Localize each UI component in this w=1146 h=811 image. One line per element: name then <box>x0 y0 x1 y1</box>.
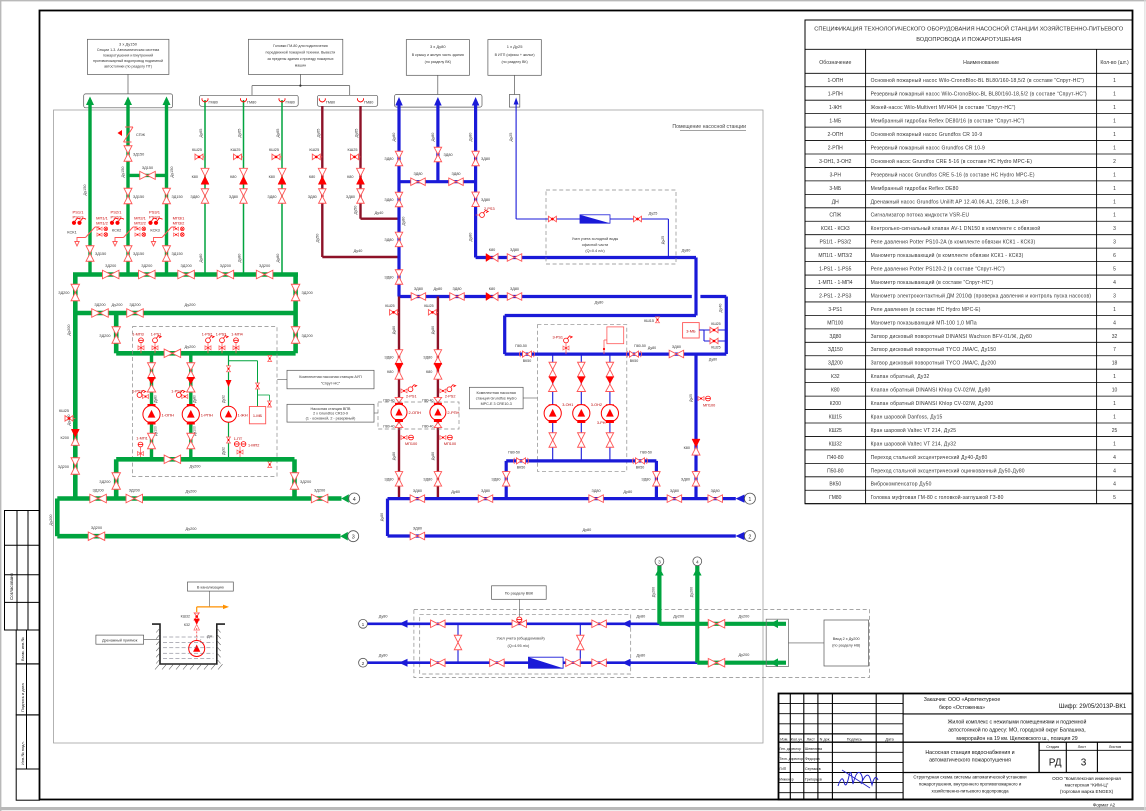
station label leader <box>523 397 537 399</box>
svg-text:МП3/2: МП3/2 <box>173 220 186 225</box>
leader roof supply <box>437 75 439 94</box>
table row К80 <box>805 395 1133 397</box>
filter office meter <box>580 215 610 223</box>
svg-text:Сертаков: Сертаков <box>805 767 821 771</box>
check К32 drain <box>194 619 200 630</box>
valve КШ25 left main <box>66 417 75 419</box>
svg-text:Ду25: Ду25 <box>661 236 665 244</box>
svg-text:Кран шаровой Danfoss, Ду15: Кран шаровой Danfoss, Ду15 <box>871 413 943 420</box>
svg-text:Резервный пожарный насос Wilo-: Резервный пожарный насос Wilo-CronoBloc-… <box>871 91 1087 98</box>
pipe blue manifold drop left <box>386 499 389 536</box>
instrument 2-PS2 <box>440 389 446 393</box>
valve ЗД80 blue riser1 b <box>395 192 403 207</box>
svg-text:В канализацию: В канализацию <box>197 585 224 589</box>
svg-text:ГМ80: ГМ80 <box>286 101 295 105</box>
flange bottom 3-ОН2 <box>577 420 585 423</box>
svg-text:Техн. директор: Техн. директор <box>780 757 804 761</box>
title block signature columns <box>789 694 791 800</box>
arrow orange sewer <box>223 605 229 610</box>
connector circle 4 bottom <box>693 557 702 566</box>
svg-text:ЗД80: ЗД80 <box>829 334 841 340</box>
svg-text:Ду25: Ду25 <box>689 394 693 402</box>
callout box Ввод <box>824 620 869 666</box>
svg-text:Ду80: Ду80 <box>431 326 435 334</box>
svg-text:Ду80: Ду80 <box>379 653 388 657</box>
svg-text:Ду200: Ду200 <box>67 325 71 336</box>
pit water level dashes <box>163 636 214 638</box>
pump 3-ОН2 <box>573 405 590 422</box>
drain pit walls <box>152 624 225 664</box>
svg-text:противопожарный водопровод под: противопожарный водопровод подземной <box>93 59 163 63</box>
svg-text:3-РН: 3-РН <box>830 172 842 178</box>
pipe green inlet top <box>659 622 786 626</box>
valve ЗД80 drop left <box>502 472 510 487</box>
table row 3-ОН1, 3-ОН2 <box>805 166 1133 168</box>
svg-text:PS1/1 - PS3/2: PS1/1 - PS3/2 <box>819 240 851 246</box>
svg-text:КШ25: КШ25 <box>711 346 720 350</box>
pipe green left drop <box>73 275 78 316</box>
valve ЗД80 blue riser1 a <box>395 151 403 166</box>
KSK valve КСК2 body <box>119 227 138 238</box>
svg-text:1: 1 <box>1113 132 1116 138</box>
svg-text:Ду80: Ду80 <box>392 452 396 460</box>
arrow meter top left <box>399 620 408 628</box>
dashed box outer inlet unit <box>414 610 870 678</box>
svg-text:Ду80: Ду80 <box>392 326 396 334</box>
svg-text:В крышу и жилую часть здания: В крышу и жилую часть здания <box>412 53 464 57</box>
pipe green x116 lower segment <box>114 459 119 498</box>
svg-text:К80: К80 <box>230 175 236 179</box>
svg-text:Лист: Лист <box>807 738 816 742</box>
svg-text:1 х Ду25: 1 х Ду25 <box>507 44 523 49</box>
valve ЗД200 right drop lower <box>291 327 300 344</box>
svg-text:Переход стальной эксцентрическ: Переход стальной эксцентрический оцинков… <box>871 467 1025 474</box>
svg-text:1: 1 <box>1113 414 1116 420</box>
KSK cluster 1 trim rows <box>97 227 102 230</box>
svg-text:хозяйственно-питьевого водопро: хозяйственно-питьевого водопровода <box>931 789 1009 794</box>
table row 1-РПН <box>805 99 1133 101</box>
svg-text:(по разделу НВ): (по разделу НВ) <box>832 644 861 648</box>
svg-text:КШ25: КШ25 <box>829 428 842 434</box>
svg-text:ЗД80: ЗД80 <box>481 157 490 161</box>
svg-text:1: 1 <box>1113 186 1116 192</box>
table row МП1/1 - МП3/2 <box>805 261 1133 263</box>
pump 2-ОПН <box>391 404 407 420</box>
pipe meter bypass right <box>579 624 581 663</box>
check valve К80 thin riser 3 <box>278 168 286 184</box>
valve top leg 3-ОН1 <box>549 362 557 377</box>
svg-text:1-ОПН: 1-ОПН <box>162 413 175 418</box>
svg-text:1-РПН: 1-РПН <box>201 413 213 418</box>
margin box Подпись и дата <box>16 664 39 715</box>
pipe blue link risers <box>399 180 476 183</box>
svg-text:3-ОН1, 3-ОН2: 3-ОН1, 3-ОН2 <box>819 159 851 165</box>
svg-text:ЗД80: ЗД80 <box>229 195 238 199</box>
svg-text:Ду80: Ду80 <box>469 133 473 142</box>
svg-text:Подпись: Подпись <box>847 738 862 742</box>
svg-text:Инв.№ подл.: Инв.№ подл. <box>20 741 25 765</box>
pipe maroon leg 2-ОПН <box>398 297 400 499</box>
leader to fire collector <box>127 74 129 94</box>
valve top line a <box>431 620 446 628</box>
tank 1-МБ <box>249 407 265 424</box>
tank 3-МБ box <box>683 323 700 338</box>
pipe pump leg 3-ОН2 <box>580 354 582 461</box>
svg-text:Ду80: Ду80 <box>431 452 435 460</box>
valve ЗД80 link b <box>449 178 464 186</box>
svg-text:КСК2: КСК2 <box>112 228 121 233</box>
valve ЗД200 left main <box>71 458 80 475</box>
pipe 1-МБ link <box>229 360 258 362</box>
valve inlet top <box>708 620 725 629</box>
svg-text:СПЕЦИФИКАЦИЯ ТЕХНОЛОГИЧЕСКОГО: СПЕЦИФИКАЦИЯ ТЕХНОЛОГИЧЕСКОГО ОБОРУДОВАН… <box>814 25 1123 33</box>
callout box GM-80 heads <box>248 39 342 74</box>
svg-text:1-PS4: 1-PS4 <box>171 390 182 394</box>
valve ЗД150 riser 2 lower <box>124 246 132 262</box>
svg-text:3-МБ: 3-МБ <box>686 329 696 334</box>
KSK valve КСК1 body <box>81 227 100 238</box>
svg-text:П80-50: П80-50 <box>508 451 520 455</box>
svg-text:ВК50: ВК50 <box>523 359 532 363</box>
valve КШ25 leg 2-РПН <box>429 311 438 313</box>
svg-text:КШ25: КШ25 <box>231 148 241 152</box>
svg-text:1-МБ: 1-МБ <box>253 413 263 418</box>
svg-text:ЗД80: ЗД80 <box>308 195 317 199</box>
KSK cluster 2 trim rows <box>135 227 140 230</box>
valve on leg 1-ОПН bottom <box>148 433 156 449</box>
valve ЗД80 manifold1 a <box>410 495 425 503</box>
reducer П80-40 lower 2-РПН <box>434 422 442 427</box>
pipe meter bypass left <box>457 624 459 663</box>
control box 3x station <box>607 327 624 344</box>
svg-text:Ду80: Ду80 <box>193 395 197 403</box>
pipe maroon riser1 elbow to blue <box>322 256 399 258</box>
svg-text:Ду200: Ду200 <box>49 515 53 526</box>
flange top 3-ОН2 <box>577 404 585 407</box>
svg-text:П80-40: П80-40 <box>422 425 433 429</box>
valve bottom leg 3-ОН1 <box>549 433 557 448</box>
table row ЗД200 <box>805 368 1133 370</box>
svg-text:Узел учета холодной воды: Узел учета холодной воды <box>572 237 619 241</box>
pump 2-РПН <box>430 404 446 420</box>
svg-text:3: 3 <box>1113 226 1116 232</box>
svg-text:ЗД200: ЗД200 <box>99 480 110 484</box>
svg-text:4: 4 <box>1113 320 1116 326</box>
valve КШ25 meter outlet <box>634 216 642 222</box>
pipe green suction header <box>116 351 295 356</box>
svg-text:Ду80: Ду80 <box>402 217 406 226</box>
svg-text:Помещение насосной станции: Помещение насосной станции <box>672 123 746 130</box>
flange bottom 1-ОПН <box>148 422 156 425</box>
svg-text:1: 1 <box>1113 441 1116 447</box>
svg-text:1: 1 <box>362 622 365 628</box>
pipe pump leg 3-РН <box>609 354 611 461</box>
svg-text:(Q=0.4 л/с): (Q=0.4 л/с) <box>585 249 605 253</box>
svg-text:MPC-E 3 CRE10-3: MPC-E 3 CRE10-3 <box>481 402 512 406</box>
flange bottom 2-ОПН <box>395 419 403 422</box>
connector circle 1 <box>744 493 755 504</box>
svg-text:К80: К80 <box>269 175 275 179</box>
svg-text:Листов: Листов <box>1109 745 1121 749</box>
svg-text:(по разделу ВК): (по разделу ВК) <box>425 60 451 64</box>
svg-text:КШ15: КШ15 <box>829 414 842 420</box>
svg-text:К200: К200 <box>60 436 69 440</box>
svg-text:Заказчик: ООО «Архитектурное: Заказчик: ООО «Архитектурное <box>924 697 1001 703</box>
pipe green riser 3 Ду150 <box>165 100 168 275</box>
arrow riser 2 <box>124 97 132 106</box>
svg-text:Реле давления (в составе НС Hy: Реле давления (в составе НС Hydro MPC-E) <box>871 307 981 313</box>
svg-text:Узел учета (общедомовой): Узел учета (общедомовой) <box>496 636 545 641</box>
svg-text:Жокей-насос Wilo-Multivert MVI: Жокей-насос Wilo-Multivert MVI404 (в сос… <box>871 104 1016 111</box>
svg-text:Ду65: Ду65 <box>276 129 280 138</box>
svg-text:2: 2 <box>748 534 751 540</box>
pump 1-РПН <box>182 406 199 423</box>
svg-text:Манометр показывающий (в соста: Манометр показывающий (в составе “Спрут-… <box>871 279 994 286</box>
valve ЗД200 suction header <box>164 349 181 358</box>
instrument 2-PS3 <box>480 210 489 217</box>
svg-text:N док.: N док. <box>820 738 831 742</box>
pipe green riser 1 Ду150 <box>88 100 91 275</box>
svg-text:ЗД150: ЗД150 <box>142 166 153 170</box>
table row 1-PS1 - 1-PS5 <box>805 274 1133 276</box>
svg-text:2-РПН: 2-РПН <box>447 410 459 415</box>
arrow meter bottom right <box>622 659 631 667</box>
svg-text:ЗД80: ЗД80 <box>452 287 461 291</box>
svg-text:К200: К200 <box>830 401 841 407</box>
svg-text:Головка муфтовая ГМ-80 с голов: Головка муфтовая ГМ-80 с головкой-заглуш… <box>871 494 1004 501</box>
svg-text:5: 5 <box>1113 495 1116 501</box>
svg-text:ЗД200: ЗД200 <box>92 489 103 493</box>
compensator ВК50 discharge left <box>514 458 529 464</box>
svg-text:П40-80: П40-80 <box>827 455 844 461</box>
svg-text:РД: РД <box>1049 758 1062 769</box>
svg-text:1-PS1 - 1-PS5: 1-PS1 - 1-PS5 <box>819 267 851 273</box>
valve bottom leg 3-РН <box>606 433 614 448</box>
arrow to connector 2 <box>736 532 745 540</box>
valve ЗД150 riser3 mid <box>163 188 171 204</box>
svg-text:Мембранный гидробак Reflex DE8: Мембранный гидробак Reflex DE80 <box>871 185 959 192</box>
pipe blue meter top line <box>368 622 660 625</box>
pipe blue thin riser Ду25 <box>515 101 517 219</box>
svg-text:По разделу ВВК: По разделу ВВК <box>505 592 534 596</box>
drain pit hatching <box>159 663 161 665</box>
svg-text:1-МП1 - 1-МП4: 1-МП1 - 1-МП4 <box>818 280 853 286</box>
flange top 2-РПН <box>434 403 442 406</box>
valve КШ32 drain <box>194 613 199 620</box>
pipe green discharge header <box>116 457 294 462</box>
pipe blue drop x504 <box>503 316 506 355</box>
svg-text:Ду80: Ду80 <box>276 254 280 263</box>
svg-text:1: 1 <box>1113 145 1116 151</box>
svg-text:автоматического пожаротушения: автоматического пожаротушения <box>929 758 1011 764</box>
valve on leg 1-РПН top <box>187 363 195 379</box>
dashed box Sprut-NS station <box>133 327 278 477</box>
svg-text:автостоянкой по адресу: МО, го: автостоянкой по адресу: МО, городской ок… <box>948 727 1085 734</box>
arrow blue riser1 <box>395 97 403 106</box>
svg-text:ООО “Комплексная инженерная: ООО “Комплексная инженерная <box>1052 776 1121 781</box>
svg-text:Инженер: Инженер <box>780 777 794 781</box>
dashed box Hydro MPC station <box>537 325 626 472</box>
svg-text:ЗД200: ЗД200 <box>91 526 102 530</box>
pipe blue riser 3 <box>474 101 477 258</box>
svg-text:ЗД200: ЗД200 <box>129 303 140 307</box>
valve ЗД200 x116 lower <box>112 473 121 490</box>
svg-text:Основной пожарный насос Wilo-C: Основной пожарный насос Wilo-CronoBloc-B… <box>871 77 1085 84</box>
valve ЗД200 mid horizontal 1 <box>92 309 109 318</box>
svg-text:ЗД200: ЗД200 <box>180 264 191 268</box>
arrow riser 3 <box>163 97 171 106</box>
pipe blue meter bottom line <box>368 661 698 664</box>
svg-text:ЗД80: ЗД80 <box>413 527 422 531</box>
svg-text:(по разделу ВК): (по разделу ВК) <box>501 60 527 64</box>
dashed box office water meter <box>546 190 676 264</box>
svg-text:ЗД80: ЗД80 <box>190 195 199 199</box>
valve ЗД80 blue riser1 c <box>395 232 403 247</box>
table row PS1/1 - PS3/2 <box>805 247 1133 249</box>
svg-text:ЗД80: ЗД80 <box>413 489 422 493</box>
valve bottom line c <box>566 659 581 667</box>
svg-text:Ду80: Ду80 <box>199 254 203 263</box>
svg-text:3-ОН1: 3-ОН1 <box>562 403 573 407</box>
svg-text:К80: К80 <box>684 446 690 450</box>
valve ЗД80 blue riser3 a <box>472 151 480 166</box>
valve КШ25 leg 2-ОПН <box>390 311 399 313</box>
table row К200 <box>805 409 1133 411</box>
svg-text:Ду80: Ду80 <box>469 233 473 242</box>
svg-text:МП100: МП100 <box>405 442 417 446</box>
margin box Взам. инв. № <box>16 630 39 664</box>
svg-text:ЗД80: ЗД80 <box>510 248 519 252</box>
svg-text:Ду32: Ду32 <box>222 395 226 403</box>
valve bottom line d <box>592 659 607 667</box>
svg-text:Ду80: Ду80 <box>392 133 396 142</box>
svg-text:Ду200: Ду200 <box>673 614 684 618</box>
svg-text:ЗД80: ЗД80 <box>423 478 432 482</box>
collector box domestic risers <box>395 95 483 108</box>
pipe blue y315 horizontal <box>505 314 696 317</box>
pipe green thin riser 1 Ду65 <box>204 100 206 275</box>
flange bottom 3-РН <box>606 420 614 423</box>
pipe green riser to 4 <box>695 566 699 663</box>
table row КСК1 - КСК3 <box>805 234 1133 236</box>
svg-text:Резервный насос Grundfos CRE 5: Резервный насос Grundfos CRE 5-16 (в сос… <box>871 171 1035 178</box>
table row КШ15 <box>805 422 1133 424</box>
pipe blue thin office drop <box>667 219 669 258</box>
svg-text:1: 1 <box>1113 92 1116 98</box>
flange top 2-ОПН <box>395 403 403 406</box>
reducer-check combo on leg 1-ОПН <box>147 377 155 392</box>
leader inlet callout <box>788 642 824 644</box>
svg-text:ЗД150: ЗД150 <box>172 195 183 199</box>
pipe blue x696 upper <box>694 258 697 316</box>
GM80 head 2 <box>241 98 247 102</box>
svg-text:Ду32: Ду32 <box>222 447 226 455</box>
svg-text:К32: К32 <box>831 374 840 380</box>
svg-text:Шевелева: Шевелева <box>805 747 822 751</box>
svg-text:Переход стальной эксцентрическ: Переход стальной эксцентрический Ду40-Ду… <box>871 454 988 461</box>
valve ЗД200 manifold 3 <box>178 270 195 279</box>
collector box ITP riser <box>509 95 519 108</box>
KSK cluster 2 drain arrow <box>115 238 123 242</box>
reducer П80-40 lower 2-ОПН <box>395 422 403 427</box>
svg-text:1: 1 <box>1113 307 1116 313</box>
svg-text:ЗД200: ЗД200 <box>94 303 105 307</box>
svg-text:Ду80: Ду80 <box>153 395 157 403</box>
svg-text:2-PS1: 2-PS1 <box>406 394 417 398</box>
svg-text:ГМ80: ГМ80 <box>209 101 218 105</box>
KSK cluster 2 manometer pair <box>110 221 114 225</box>
svg-text:МП100: МП100 <box>827 320 843 326</box>
svg-text:Кран шаровой Valtec VT 214, Ду: Кран шаровой Valtec VT 214, Ду25 <box>871 427 957 434</box>
valve ЗД200 manifold 2 <box>139 270 156 279</box>
svg-text:Обозначение: Обозначение <box>819 60 851 66</box>
svg-text:3-PS1: 3-PS1 <box>828 307 842 313</box>
svg-text:Комплектная насосная: Комплектная насосная <box>477 391 516 395</box>
valve КШ25 meter inlet <box>548 216 556 222</box>
svg-text:К80: К80 <box>489 248 495 252</box>
svg-text:П80-50: П80-50 <box>640 451 652 455</box>
pipe green riser 2 Ду150 <box>126 100 129 275</box>
pipe green jog vertical <box>55 499 60 537</box>
svg-text:ЗД150: ЗД150 <box>828 347 843 353</box>
valve ЗД80 manifold1 b <box>478 495 493 503</box>
svg-text:КСК1: КСК1 <box>67 229 76 234</box>
svg-text:Основной пожарный насос Grundf: Основной пожарный насос Grundfos CR 10-9 <box>871 131 983 138</box>
drain tap on discharge header <box>268 462 272 468</box>
svg-text:ГМ80: ГМ80 <box>326 101 335 105</box>
svg-text:Ду40: Ду40 <box>375 211 384 215</box>
valve top line b <box>592 620 607 628</box>
table row К32 <box>805 382 1133 384</box>
svg-text:П80-50: П80-50 <box>634 344 646 348</box>
svg-text:ЗД80: ЗД80 <box>423 356 432 360</box>
svg-text:Ду80: Ду80 <box>648 346 656 350</box>
svg-text:КСК1 - КСК3: КСК1 - КСК3 <box>821 226 850 232</box>
svg-text:1: 1 <box>1113 119 1116 125</box>
valve bottom line b <box>490 659 505 667</box>
margin column block Согласовано <box>5 511 40 631</box>
GM80 head 1 <box>202 98 208 102</box>
valve ЗД80 manifold2 <box>410 532 425 540</box>
valve ЗД80 thin riser 1 <box>201 189 209 204</box>
svg-text:ЗД80: ЗД80 <box>384 356 393 360</box>
svg-text:пожаротушения и Внутренний: пожаротушения и Внутренний <box>103 54 153 58</box>
pump 3-РН <box>601 405 618 422</box>
label box Дренажный приямок <box>96 635 144 644</box>
arrow green riser 4 <box>693 568 702 576</box>
svg-text:Шифр: 29/05/2013Р-ВК1: Шифр: 29/05/2013Р-ВК1 <box>1059 704 1127 710</box>
flange bottom 1-РПН <box>187 422 195 425</box>
arrow meter top right <box>622 620 631 628</box>
svg-text:2-PS3: 2-PS3 <box>484 207 495 211</box>
svg-text:ЗД150: ЗД150 <box>133 252 144 256</box>
arrow riser 1 <box>86 97 94 106</box>
svg-text:ЗД200: ЗД200 <box>105 264 116 268</box>
svg-text:Ду25: Ду25 <box>509 133 513 142</box>
svg-text:мастерская “КИМ-Ц”: мастерская “КИМ-Ц” <box>1065 783 1109 788</box>
title block stage columns <box>1038 742 1040 772</box>
pipe pump leg 3-ОН1 <box>552 354 554 461</box>
flange top 1-ОПН <box>148 404 156 407</box>
svg-text:Клапан обратный DINANSI Khlop: Клапан обратный DINANSI Khlop CV-02/W, Д… <box>871 387 991 394</box>
pipe green left main vertical <box>73 313 78 499</box>
svg-text:10: 10 <box>1112 388 1118 394</box>
svg-text:Ду80: Ду80 <box>682 249 691 253</box>
svg-text:32: 32 <box>1112 334 1118 340</box>
valve ЗД200 x294 lower <box>290 473 299 490</box>
label box VPV station <box>287 404 374 422</box>
svg-text:ВК50: ВК50 <box>517 466 526 470</box>
